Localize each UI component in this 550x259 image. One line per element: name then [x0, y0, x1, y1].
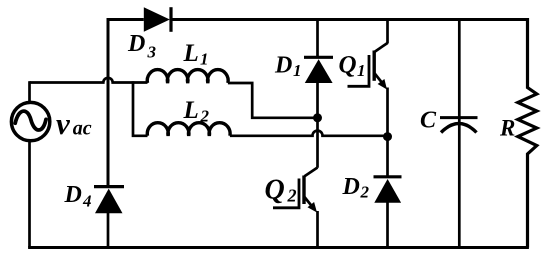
inductor L1 — [147, 70, 228, 83]
svg-text:2: 2 — [287, 185, 297, 205]
IGBT Q2 — [273, 168, 318, 213]
node B junction dot — [383, 132, 392, 141]
wire: L2 to node B with hop over leg A — [230, 131, 388, 136]
label D3 — [127, 31, 157, 61]
svg-text:2: 2 — [200, 107, 210, 126]
svg-text:D: D — [64, 182, 82, 208]
wire: leg B bottom (D2 to bottom rail) — [386, 202, 389, 248]
label L2 — [183, 97, 210, 126]
label C — [420, 108, 437, 134]
svg-text:D: D — [342, 174, 360, 200]
label Q2 — [265, 174, 297, 205]
diode D4 — [94, 187, 124, 214]
diode D2 — [374, 177, 402, 203]
svg-text:L: L — [183, 97, 199, 124]
wire: capacitor leg — [458, 18, 461, 248]
svg-text:Q: Q — [265, 174, 285, 205]
wire: leg B top (rail to Q1) — [386, 18, 389, 44]
wire: leg B middle (Q1 emitter through node B to D2) — [386, 88, 389, 177]
svg-text:C: C — [420, 108, 437, 134]
wire: vac top horizontal with hop over D3/D4 leg — [30, 78, 148, 83]
svg-text:D: D — [127, 31, 145, 57]
svg-text:4: 4 — [82, 191, 92, 210]
svg-text:3: 3 — [147, 42, 157, 61]
svg-text:1: 1 — [357, 61, 366, 80]
svg-text:1: 1 — [293, 61, 302, 80]
label D1 — [274, 53, 302, 81]
inductor L2 — [147, 123, 230, 136]
wire: left leg upper + top rail left segment — [108, 20, 144, 187]
node A junction dot — [313, 113, 322, 122]
wire: top rail right segment — [170, 18, 529, 21]
wire: L1 to node A — [228, 83, 318, 118]
diode D3 — [144, 7, 171, 32]
IGBT Q1 — [348, 43, 388, 90]
wire: left leg lower (D4 to bottom rail) — [107, 213, 110, 248]
wire: L2 left branch — [133, 81, 148, 136]
AC source vac — [11, 102, 49, 140]
wire: leg A bottom (Q2 emitter to bottom rail) — [316, 211, 319, 248]
svg-text:L: L — [183, 40, 199, 67]
wire: vac bottom stub — [28, 142, 31, 248]
wire: leg A middle (D1 through node A to Q2) — [316, 82, 319, 168]
wire: vac top stub — [28, 81, 31, 101]
label vac — [56, 106, 92, 141]
svg-text:D: D — [274, 53, 292, 79]
label D4 — [64, 182, 92, 210]
svg-text:v: v — [56, 106, 71, 141]
resistor R — [518, 18, 537, 248]
diode D1 — [304, 57, 333, 83]
wire: leg A top (rail to D1) — [316, 18, 319, 57]
capacitor C — [440, 118, 478, 133]
label D2 — [342, 174, 370, 202]
svg-text:1: 1 — [200, 50, 209, 69]
label Q1 — [339, 52, 366, 81]
svg-text:ac: ac — [73, 118, 92, 140]
label R — [499, 116, 515, 141]
label L1 — [183, 40, 209, 69]
svg-text:R: R — [499, 116, 515, 141]
wire: bottom rail — [28, 246, 529, 249]
svg-text:Q: Q — [339, 52, 357, 79]
svg-text:2: 2 — [360, 183, 370, 202]
